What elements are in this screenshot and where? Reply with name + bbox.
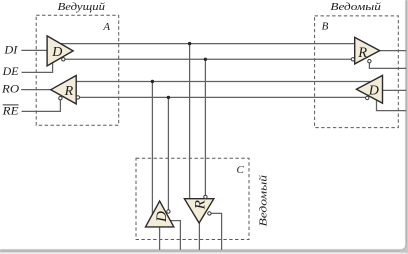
wire B receiver enable	[369, 63, 406, 69]
svg-text:R: R	[64, 84, 74, 99]
wire B receiver output	[380, 50, 407, 52]
svg-text:DE: DE	[2, 66, 19, 78]
wire RE lead	[22, 100, 61, 112]
label Ведущий (master)	[58, 1, 106, 13]
label A	[102, 21, 110, 33]
pin label DE	[2, 66, 19, 78]
wire drop line1 to C	[189, 44, 191, 199]
svg-text:Ведомый: Ведомый	[257, 174, 269, 226]
svg-text:D: D	[51, 45, 62, 60]
node junction line3	[151, 80, 154, 83]
svg-text:DI: DI	[3, 44, 18, 56]
wire drop line4 to C	[167, 97, 169, 209]
svg-text:B: B	[322, 21, 329, 33]
driver D (block B)	[356, 75, 382, 103]
wire drop line2 to C	[204, 59, 206, 195]
label Ведомый (slave C, rotated)	[257, 174, 269, 226]
driver D (block C)	[146, 201, 174, 227]
wire DI lead	[21, 49, 47, 51]
svg-text:RO: RO	[1, 84, 20, 96]
wire RO lead	[21, 89, 51, 91]
svg-text:A: A	[102, 21, 110, 33]
pin label RE (active low, overline)	[2, 105, 19, 118]
svg-text:D: D	[368, 84, 379, 99]
pin label RO	[1, 84, 20, 96]
receiver R (block B)	[351, 37, 380, 64]
wire C receiver output	[198, 223, 200, 250]
wire drop line3 to C	[151, 82, 153, 216]
block A dashed box	[36, 15, 119, 125]
receiver R (block A)	[51, 76, 80, 104]
svg-text:R: R	[357, 45, 367, 61]
wire bus line 3	[76, 81, 371, 83]
svg-text:Ведомый: Ведомый	[330, 1, 381, 13]
svg-text:Ведущий: Ведущий	[58, 1, 106, 13]
svg-text:RE: RE	[2, 106, 19, 118]
wire C driver input	[159, 227, 161, 250]
label B	[322, 21, 329, 33]
block B dashed box	[315, 16, 399, 128]
wire bus line 4	[80, 96, 366, 98]
label Ведомый (slave B)	[330, 1, 381, 13]
svg-text:C: C	[237, 164, 245, 176]
node junction line1	[188, 42, 191, 45]
driver D (block A)	[47, 36, 73, 66]
pin label DI	[3, 44, 18, 56]
node junction line2	[204, 58, 207, 61]
node junction line4	[167, 96, 170, 99]
label C	[237, 164, 245, 176]
block C dashed box	[136, 158, 249, 239]
wire bus line 2	[65, 58, 351, 60]
svg-text:R: R	[193, 200, 209, 210]
wire DE lead	[22, 63, 53, 73]
receiver R (block C)	[184, 195, 213, 223]
wire B driver enable	[377, 100, 407, 111]
wire C receiver enable	[211, 213, 222, 250]
wire B driver input	[383, 89, 407, 91]
wire C driver enable	[170, 221, 180, 250]
wire bus line 1	[61, 43, 355, 45]
